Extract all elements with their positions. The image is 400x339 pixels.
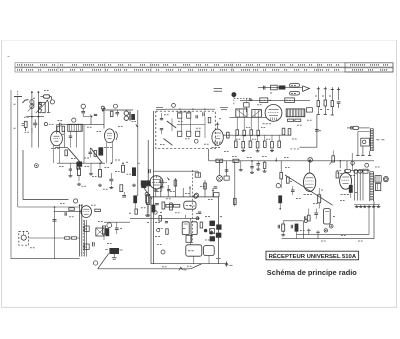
fm ant box P xyxy=(361,138,370,146)
capacitor C7 xyxy=(122,195,126,197)
wire x153 long xyxy=(153,111,155,264)
heater lamp xyxy=(308,158,313,163)
tube V3 envelope xyxy=(150,176,163,189)
ot tap box 1 xyxy=(84,226,89,231)
antenna terminal bar xyxy=(14,96,22,98)
ps box c2 xyxy=(204,246,215,256)
phase cap box xyxy=(96,228,104,236)
wire x84 drop xyxy=(83,125,85,164)
node top B xyxy=(38,91,40,93)
wire antenna lead 2 xyxy=(17,97,19,208)
page scan top edge xyxy=(2,40,397,42)
resistor R43 xyxy=(65,237,70,239)
resistor row2g xyxy=(278,141,281,147)
speaker run long xyxy=(98,268,191,270)
resistor R33 xyxy=(103,226,106,234)
switch S1b contacts xyxy=(178,131,182,136)
speaker symbol xyxy=(21,235,26,240)
output transformer core xyxy=(369,172,371,202)
component box B1 xyxy=(271,85,278,90)
wire pill to core xyxy=(359,127,370,129)
heater res xyxy=(332,156,335,162)
res h R32 xyxy=(166,205,172,208)
riser x168 xyxy=(167,185,169,197)
lamp row circles xyxy=(354,169,358,173)
left col parts xyxy=(286,177,289,183)
resistor R20 xyxy=(282,128,285,135)
tuning arrow 1 xyxy=(36,101,48,113)
power block frame xyxy=(151,196,219,198)
cap x215 xyxy=(214,186,218,188)
resistor R6 xyxy=(99,170,102,178)
riser x183 xyxy=(182,188,184,197)
mixer arrow 2 xyxy=(131,114,134,118)
label osc xyxy=(220,107,228,109)
FM tuner dashed box xyxy=(156,111,216,149)
ot tap box 2 xyxy=(84,244,89,249)
capacitor C21 xyxy=(92,242,94,246)
fuse tick xyxy=(179,267,183,270)
tube V5 envelope xyxy=(304,173,316,191)
capacitor C31 xyxy=(89,151,92,153)
wire risers mid2 xyxy=(235,135,237,141)
bus caps cluster xyxy=(256,163,260,165)
pill label 2 xyxy=(290,92,300,95)
avc dashed v xyxy=(233,97,235,105)
output transformer secondary xyxy=(84,220,86,257)
ps box c1 xyxy=(186,245,202,256)
wire x241 drop xyxy=(240,161,242,168)
wire x91 drop xyxy=(90,163,92,172)
res col a xyxy=(317,87,319,101)
pot box xyxy=(195,173,200,177)
tube V1 envelope xyxy=(51,131,63,146)
capacitor C4 xyxy=(94,113,97,115)
ot box 2 xyxy=(375,184,380,191)
main bus y160 xyxy=(209,160,374,162)
speaker dashed box xyxy=(19,231,29,245)
circled B right xyxy=(365,163,369,167)
ot pill terminal xyxy=(384,177,389,182)
volume pot dark xyxy=(141,181,150,186)
wire V7 top xyxy=(217,124,219,130)
electrolytic dark xyxy=(110,248,119,253)
page scan right edge xyxy=(396,40,398,307)
mixer arrow mark xyxy=(90,114,93,118)
wire row y124 xyxy=(64,124,104,126)
capacitor C2 xyxy=(59,123,61,127)
label scatter audio xyxy=(60,202,62,204)
switch S1a contacts xyxy=(178,113,182,118)
ground G1 xyxy=(78,183,80,185)
equals mark xyxy=(214,88,222,90)
wire V1 leads down xyxy=(53,145,55,163)
resistor R40 xyxy=(69,208,75,211)
label scatter mid xyxy=(224,151,226,153)
label scatter fm xyxy=(164,114,166,116)
resistor R5 xyxy=(78,168,81,176)
caps mid right xyxy=(314,212,318,214)
riser x155 cap xyxy=(155,188,157,197)
wire osc lead B xyxy=(37,92,39,148)
ps pill top xyxy=(184,201,196,209)
res h pair xyxy=(288,119,294,121)
capacitor C20 xyxy=(115,227,119,229)
tube V5 electrodes xyxy=(306,177,313,179)
label scatter left xyxy=(24,116,26,118)
label Li xyxy=(49,123,51,125)
resistor R51 xyxy=(279,196,282,203)
label RH xyxy=(376,139,379,141)
wire antenna lead 1 xyxy=(10,90,12,259)
wire y171 right xyxy=(350,169,370,171)
wire into V1 grid xyxy=(31,128,33,133)
block bottom terminal xyxy=(226,262,228,267)
ground G4 xyxy=(133,184,135,186)
resistor R62 xyxy=(77,162,80,169)
avc comp xyxy=(244,103,250,107)
small parts y170 xyxy=(69,168,72,170)
bottom right IF cluster xyxy=(142,181,146,187)
wire y211 grid xyxy=(54,210,81,212)
component box B2 xyxy=(260,98,268,103)
wire y87 top xyxy=(258,87,302,89)
wire y147 left xyxy=(55,147,68,149)
box x216 xyxy=(214,193,219,197)
component box B3 xyxy=(285,98,295,103)
wire x54 drop xyxy=(54,207,56,259)
ratio detector can xyxy=(286,109,305,117)
resistor row2e xyxy=(263,141,266,147)
wire y218 xyxy=(130,217,200,219)
capacitor C1 xyxy=(33,122,37,124)
wire x148 bus xyxy=(147,140,149,194)
circled D xyxy=(81,104,85,108)
label scatter right xyxy=(285,166,287,168)
IF transformer T1 xyxy=(68,124,82,131)
switch diagonal 1 xyxy=(68,148,80,162)
capacitor C5 xyxy=(116,111,120,113)
capacitor C3 xyxy=(81,110,85,112)
wire y163 xyxy=(57,162,105,164)
antenna coupling hook xyxy=(23,100,29,103)
circle node xyxy=(107,223,112,228)
label scatter antenna xyxy=(14,103,16,105)
resistor R9 xyxy=(120,185,123,192)
caps V3 xyxy=(160,186,163,188)
circled dot left xyxy=(35,164,39,168)
right col x352 xyxy=(351,153,353,161)
ot core dashes xyxy=(82,220,84,256)
label ECH81 xyxy=(212,147,214,149)
wire y238 right xyxy=(282,238,375,240)
riser x374 right xyxy=(373,201,375,238)
output transformer primary xyxy=(79,205,81,257)
left col x281 xyxy=(280,161,282,173)
ground G2 xyxy=(99,184,101,186)
parts table text xyxy=(17,64,23,66)
resistor R53 xyxy=(336,172,339,178)
label V5 xyxy=(304,194,306,196)
riser x160 xyxy=(160,178,162,197)
feedback diagonal xyxy=(285,175,333,205)
wire x137 arrowmark xyxy=(136,125,138,128)
wire risers mid xyxy=(236,117,238,130)
rectifier dark 3 xyxy=(210,229,215,234)
node top A xyxy=(31,91,33,93)
tube V3 electrodes xyxy=(153,179,161,181)
bus junction dots xyxy=(251,160,253,162)
wire y234 right xyxy=(297,233,370,235)
IF can T3 xyxy=(236,109,247,117)
dark component xyxy=(279,86,285,89)
capacitor C11 xyxy=(315,129,319,131)
caps bottom right xyxy=(308,228,310,234)
wire T1 drop b xyxy=(76,131,78,147)
circled C xyxy=(72,118,76,122)
V2 side arc xyxy=(116,131,118,140)
mid tiny labels xyxy=(236,138,238,140)
resistor R60 xyxy=(65,150,68,156)
grounds row right xyxy=(356,205,358,207)
det loop wire xyxy=(300,115,317,147)
ps inner risers xyxy=(193,256,195,264)
wire drops v3 xyxy=(190,218,192,222)
circled A audio xyxy=(93,261,97,265)
resistor R54 xyxy=(349,185,352,192)
circled B small xyxy=(44,123,47,126)
node row dots xyxy=(31,116,33,118)
svg-text:RÉCEPTEUR UNIVERSEL 510A: RÉCEPTEUR UNIVERSEL 510A xyxy=(269,252,357,260)
resistor R57 xyxy=(308,215,311,221)
resistor R8 xyxy=(132,168,135,176)
IF can T4 xyxy=(252,110,262,118)
wire y100 top xyxy=(240,99,310,101)
tube V6 electrodes xyxy=(342,176,349,178)
funnel shape xyxy=(303,86,310,92)
tuning arrow 2 xyxy=(28,104,35,112)
label V6 xyxy=(341,194,343,196)
wire y135 mid xyxy=(223,134,290,136)
tube V8 electrodes xyxy=(269,109,279,111)
circled G xyxy=(194,194,198,198)
label V2 xyxy=(104,147,106,149)
ps small bits xyxy=(197,217,199,219)
resistor R42 xyxy=(106,229,109,236)
wire y221 right xyxy=(283,220,303,222)
resistor R30 xyxy=(146,196,149,203)
circled 6 node xyxy=(172,104,176,108)
speaker wire y258 xyxy=(11,258,80,260)
res col d xyxy=(338,88,340,100)
label EABC80 xyxy=(263,123,265,125)
riser x226 xyxy=(226,161,228,176)
tube V4 envelope xyxy=(81,206,92,218)
resistor R21 xyxy=(288,129,291,136)
resistor row2c xyxy=(249,141,252,147)
page scan left edge xyxy=(1,40,3,307)
resistor R56 xyxy=(282,224,285,231)
wire x138 bus xyxy=(137,110,139,196)
IF transformer T2 windings xyxy=(124,111,128,115)
riser x190b xyxy=(189,186,191,197)
resistor row1c xyxy=(250,130,253,136)
riser x213 xyxy=(212,188,214,197)
speaker wire y238 xyxy=(29,237,80,239)
wire y117 mid xyxy=(230,116,267,118)
label fm parts xyxy=(178,120,180,122)
resistor R50 xyxy=(280,173,283,179)
tube V2 electrodes xyxy=(107,132,112,134)
fm caps col xyxy=(160,118,163,120)
resistor row1b xyxy=(243,130,246,136)
circled M xyxy=(276,184,280,188)
resistor R2 xyxy=(57,126,60,131)
fm resistor xyxy=(208,118,211,123)
svg-text:Schéma de principe radio: Schéma de principe radio xyxy=(267,268,358,277)
dark contact 2 xyxy=(99,148,103,156)
wire D drop xyxy=(82,109,84,112)
switch S1a lever xyxy=(167,121,176,128)
fm ant pill xyxy=(353,126,359,129)
lamp row box xyxy=(363,169,368,173)
wire osc lead A xyxy=(31,92,33,148)
riser x175 xyxy=(174,178,176,197)
resistor R61 xyxy=(94,151,97,157)
tube V7 envelope xyxy=(212,129,223,145)
T2 core marks xyxy=(128,112,130,121)
switch contact blob xyxy=(77,162,82,167)
wire y208 right xyxy=(354,204,380,206)
parts table frame xyxy=(15,63,393,67)
title box xyxy=(266,251,359,260)
switch diagonal 2 xyxy=(91,148,103,164)
wire V1 top lead xyxy=(56,125,58,132)
wire riser x208 xyxy=(208,149,210,161)
resistor row1d xyxy=(257,130,260,136)
elec can 1 xyxy=(182,222,189,235)
capacitor C6 xyxy=(109,178,113,180)
resistor R31 xyxy=(152,205,155,212)
lamp row pill xyxy=(345,169,351,172)
wire grid row xyxy=(26,116,44,118)
small marks y100 xyxy=(249,98,252,100)
resistor row2f xyxy=(271,142,274,148)
tube V4 electrodes xyxy=(83,208,89,210)
label V1 xyxy=(51,147,53,149)
resistor row2d xyxy=(256,142,259,148)
circled small node xyxy=(101,106,104,109)
page scan bottom edge xyxy=(2,306,397,308)
riser x235 res xyxy=(234,196,236,207)
bus pill 2 xyxy=(233,159,239,162)
cap lead gnd xyxy=(113,254,115,258)
tube V6 envelope xyxy=(340,173,352,189)
res col b xyxy=(324,87,326,100)
wire y109 fm xyxy=(165,108,215,110)
capacitor C30 xyxy=(69,135,72,137)
wire y222 link xyxy=(104,221,130,223)
circled A xyxy=(50,100,54,104)
capacitor C9 fm xyxy=(195,115,197,118)
oscillator coil L2 xyxy=(39,102,46,112)
ground G3 xyxy=(110,186,112,188)
circled T xyxy=(351,161,355,165)
capacitor C8 fm xyxy=(202,112,204,116)
det loop dashes xyxy=(291,148,300,150)
lamp row text xyxy=(337,169,339,171)
circled plus xyxy=(329,224,333,228)
resistor R11 xyxy=(134,196,137,203)
resistor row2a xyxy=(234,141,237,147)
resistor R52 xyxy=(318,195,321,203)
output transformer windings xyxy=(354,170,356,200)
speaker run diagonal xyxy=(98,254,109,269)
circled E xyxy=(114,104,118,108)
circled B audio xyxy=(74,199,78,203)
V5 riser xyxy=(309,161,311,171)
wire y171 xyxy=(154,170,199,172)
bus pill 1 xyxy=(216,159,223,162)
can side box xyxy=(306,108,312,112)
circled P xyxy=(194,193,198,197)
wire V2 leads down xyxy=(105,142,107,163)
resistor R1 xyxy=(24,121,27,127)
circled 8 dark xyxy=(232,93,236,97)
wire y207 bus xyxy=(18,206,80,208)
small box V3b xyxy=(186,235,192,242)
elec can 2 xyxy=(191,222,197,235)
pilot lamp xyxy=(217,176,223,182)
V6 risers xyxy=(339,161,341,168)
fm ant drops xyxy=(357,132,359,156)
resistor R55 xyxy=(295,224,298,231)
resistor row2b xyxy=(242,142,245,148)
resistor R3 xyxy=(62,126,65,131)
node dots y163 xyxy=(78,162,80,164)
mid grounds xyxy=(242,149,244,151)
tube V1 electrodes xyxy=(54,135,60,137)
grid cap mark xyxy=(167,177,170,181)
res col c xyxy=(331,88,333,101)
rectifier dark 1 xyxy=(210,221,215,226)
resistor R41 xyxy=(95,209,101,212)
wire bend xyxy=(83,117,91,125)
resistor row1a xyxy=(236,130,239,136)
wire y199 bus xyxy=(23,199,69,201)
resistor R10 xyxy=(147,195,150,205)
circled ps xyxy=(161,250,165,254)
fm inner wires xyxy=(171,119,173,132)
speaker run end diag xyxy=(191,264,202,269)
pill label 1 xyxy=(290,84,300,87)
ferrite rod L1 xyxy=(43,95,49,98)
component x136 xyxy=(135,209,138,214)
ot box 1 xyxy=(375,176,381,183)
capacitor C10 xyxy=(262,86,264,90)
resistor R44 xyxy=(71,237,76,239)
resistor R4 xyxy=(110,111,113,116)
wire lead 3 xyxy=(22,150,24,200)
riser x205 xyxy=(204,180,206,197)
rectifier dark 4 xyxy=(216,233,221,237)
ps inner parts 2 xyxy=(159,216,162,222)
label scatter power xyxy=(157,190,159,192)
switch S1b lever xyxy=(164,139,173,146)
elec can right xyxy=(324,209,331,224)
power contact circle xyxy=(196,217,199,220)
fm ant core xyxy=(369,129,371,151)
